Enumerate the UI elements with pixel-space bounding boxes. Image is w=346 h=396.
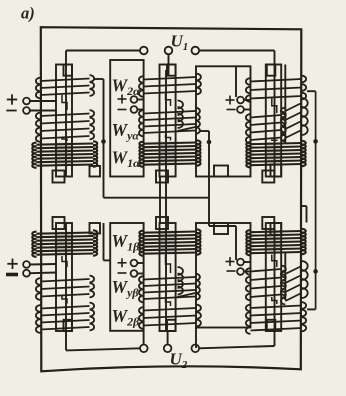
svg-text:а): а): [21, 4, 35, 23]
